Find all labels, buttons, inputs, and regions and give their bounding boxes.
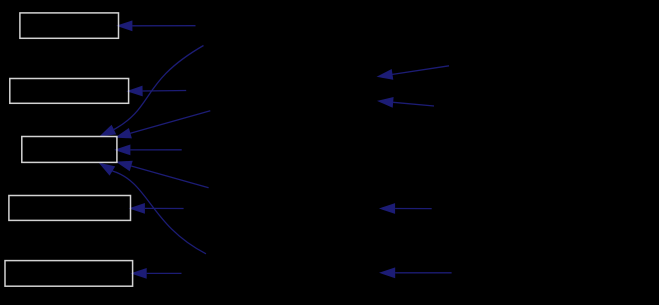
edge curve from upper right into node3 top edge <box>99 46 203 137</box>
edge arrow into node1 <box>116 20 195 31</box>
node4 box <box>9 196 131 221</box>
edge arrow into node2 <box>126 86 186 97</box>
edge arrow D into hidden right node 4 <box>379 267 452 278</box>
edge arrow E6 diagonal into node3 bottom-right corner <box>116 161 209 188</box>
node3 box <box>22 137 117 163</box>
node1 box <box>20 13 119 38</box>
edge curve from lower right into node3 bottom edge <box>99 163 206 254</box>
edge arrow A into hidden right node 1 <box>377 66 450 80</box>
node5 box <box>5 261 133 287</box>
edge arrow E5 horizontal into node3 right edge <box>114 145 182 156</box>
edge arrow C into hidden right node 3 <box>379 203 432 214</box>
edge arrow into node4 <box>129 203 184 214</box>
edge arrow into node5 <box>131 268 182 279</box>
edge arrow E4 diagonal into node3 top-right corner <box>115 111 211 139</box>
node2 box <box>10 79 129 104</box>
edge arrow B into hidden right node 2 <box>377 97 434 108</box>
